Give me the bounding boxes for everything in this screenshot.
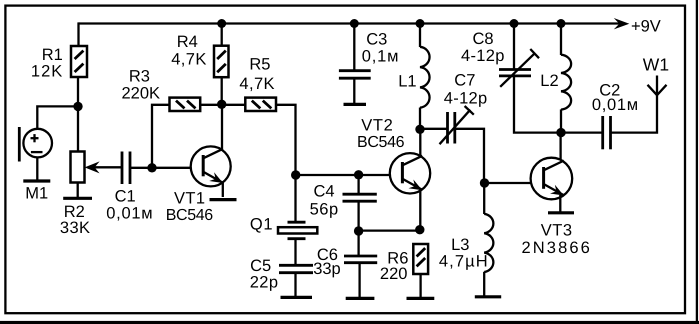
svg-text:C5: C5 xyxy=(250,257,271,275)
svg-text:Q1: Q1 xyxy=(250,215,273,233)
wire rail to C3 xyxy=(353,24,355,71)
wire node to VT3 collector xyxy=(559,133,561,160)
svg-text:4,7µH: 4,7µH xyxy=(439,252,489,270)
wire node to VT2 collector xyxy=(419,130,421,157)
ground under C5 xyxy=(281,296,313,299)
wire mic to ground xyxy=(36,158,38,181)
svg-text:BC546: BC546 xyxy=(357,134,405,151)
wire L3 to ground xyxy=(483,272,485,296)
wire R6 to ground xyxy=(419,274,421,297)
svg-text:33p: 33p xyxy=(313,260,341,278)
wire R5 right down to Q1 xyxy=(276,105,296,221)
ground under R2 xyxy=(63,197,92,200)
node rail C3 xyxy=(350,19,359,28)
svg-text:R1: R1 xyxy=(42,46,63,64)
svg-text:C3: C3 xyxy=(366,30,387,48)
wire L1 to VT2 collector node xyxy=(419,108,421,130)
node C4 C6 junction xyxy=(354,226,363,235)
wire C4 top stub xyxy=(357,175,359,194)
node L2 bottom xyxy=(556,128,565,137)
svg-text:M1: M1 xyxy=(25,184,48,202)
node rail L2 xyxy=(557,19,566,28)
wire L2 node to C2 xyxy=(561,131,602,133)
wire L2 to node xyxy=(560,109,562,133)
svg-text:+9V: +9V xyxy=(631,18,661,36)
node VT2 base wire left xyxy=(291,170,300,179)
wire C3 to ground xyxy=(353,78,355,103)
crystal Q1 xyxy=(250,215,317,238)
capacitor C4 xyxy=(310,183,377,219)
svg-text:4,7K: 4,7K xyxy=(239,75,275,93)
wire R4 to node xyxy=(221,77,223,105)
resistor R6 xyxy=(380,244,428,283)
transistor VT3 2N3866 xyxy=(522,158,592,257)
wire rail to R4 xyxy=(221,24,223,46)
wire base node up to R3 xyxy=(152,105,170,168)
capacitor C2 xyxy=(592,81,639,149)
node R4 bottom xyxy=(217,100,226,109)
node L3 top xyxy=(480,178,489,187)
wire C6 top stub xyxy=(357,231,359,256)
svg-text:L1: L1 xyxy=(398,72,416,90)
resistor R3 xyxy=(122,68,201,111)
ground under C6 xyxy=(346,297,375,300)
wire R3 to node xyxy=(200,104,222,106)
capacitor C5 xyxy=(250,257,313,292)
wire C5 to ground xyxy=(294,273,296,296)
microphone M1 xyxy=(19,127,52,202)
inductor L1 xyxy=(398,47,429,108)
wire C6 to ground xyxy=(358,263,360,297)
svg-text:0,1м: 0,1м xyxy=(362,48,399,66)
wire L1 node to C7 xyxy=(420,128,447,130)
ground under C3 xyxy=(344,103,367,106)
ground under VT1 xyxy=(210,198,237,201)
wire C2 to antenna xyxy=(612,76,658,133)
wire junction to VT2 emitter node xyxy=(359,229,420,231)
svg-text:L2: L2 xyxy=(540,72,558,90)
svg-text:22p: 22p xyxy=(250,274,279,292)
wire node to VT2 base xyxy=(296,174,390,176)
svg-text:33K: 33K xyxy=(60,219,91,237)
wire R1 bottom to R2 xyxy=(77,77,79,152)
wire VT1 emitter to ground xyxy=(222,183,224,198)
wire node to L3 xyxy=(483,183,485,214)
svg-text:R5: R5 xyxy=(249,55,270,73)
svg-text:220: 220 xyxy=(380,265,408,283)
wire Q1 to C5 xyxy=(294,240,296,265)
svg-text:C7: C7 xyxy=(454,71,475,89)
svg-text:C8: C8 xyxy=(473,30,494,48)
node L1 bottom xyxy=(415,125,424,134)
svg-text:W1: W1 xyxy=(643,55,669,75)
capacitor C1 xyxy=(106,152,153,223)
trimmer capacitor C8 xyxy=(461,30,539,87)
svg-text:VT3: VT3 xyxy=(541,221,573,239)
svg-text:4-12p: 4-12p xyxy=(444,89,488,107)
svg-text:0,01м: 0,01м xyxy=(106,204,153,222)
wire node to VT3 base xyxy=(485,182,531,184)
wire VT2 emitter down xyxy=(419,190,421,231)
wire VT3 emitter to ground xyxy=(559,195,561,212)
potentiometer R2 xyxy=(60,152,100,238)
svg-text:56p: 56p xyxy=(310,201,339,219)
wire rail to C8 xyxy=(513,24,515,69)
svg-text:2N3866: 2N3866 xyxy=(522,239,592,257)
ground under R6 xyxy=(407,297,435,300)
capacitor C6 xyxy=(313,246,377,278)
capacitor C3 xyxy=(339,30,399,78)
svg-text:220K: 220K xyxy=(122,85,161,103)
svg-text:12K: 12K xyxy=(31,63,63,81)
wire node to VT1 collector xyxy=(221,105,223,151)
resistor R5 xyxy=(239,55,276,111)
node rail R4 xyxy=(217,19,226,28)
wire rail to L1 xyxy=(419,24,421,48)
node rail L1 xyxy=(416,19,425,28)
inductor L2 xyxy=(540,55,571,110)
svg-text:BC546: BC546 xyxy=(166,207,214,224)
ground under M1 xyxy=(23,179,50,182)
node C4 top xyxy=(354,170,363,179)
svg-text:C1: C1 xyxy=(115,187,136,205)
transistor VT2 BC546 xyxy=(357,117,430,195)
inductor L3 xyxy=(439,214,493,272)
antenna W1 xyxy=(643,55,669,96)
wire rail to L2 xyxy=(560,24,562,56)
wire R2 wiper to C1 xyxy=(93,166,121,168)
wire R1 top xyxy=(77,22,79,46)
node VT2 emitter R6 xyxy=(415,225,424,234)
wire C8 down and right to L2 node xyxy=(514,76,561,133)
node mic junction xyxy=(73,102,82,111)
wire C7 to L3 node xyxy=(456,129,485,183)
node VT1 base xyxy=(147,163,156,172)
trimmer capacitor C7 xyxy=(440,71,488,144)
svg-text:4,7K: 4,7K xyxy=(171,51,207,69)
wire C4 bottom stub xyxy=(357,201,359,231)
wire to microphone xyxy=(37,106,78,129)
svg-text:R4: R4 xyxy=(177,33,198,51)
+9V power rail xyxy=(79,18,661,36)
svg-text:0,01м: 0,01м xyxy=(592,96,639,114)
resistor R1 xyxy=(31,46,87,81)
svg-text:C4: C4 xyxy=(314,183,335,201)
wire R2 to ground xyxy=(77,183,79,198)
wire C1 to VT1 base xyxy=(131,167,191,169)
svg-text:R3: R3 xyxy=(129,68,150,86)
node rail C8 xyxy=(510,19,519,28)
ground under VT3 xyxy=(548,211,574,214)
transistor VT1 BC546 xyxy=(166,146,231,223)
ground under L3 xyxy=(475,295,501,298)
svg-text:VT2: VT2 xyxy=(361,117,393,135)
wire node to R5 xyxy=(222,104,246,106)
svg-text:VT1: VT1 xyxy=(174,189,205,207)
svg-text:4-12p: 4-12p xyxy=(461,47,505,65)
resistor R4 xyxy=(171,33,228,77)
